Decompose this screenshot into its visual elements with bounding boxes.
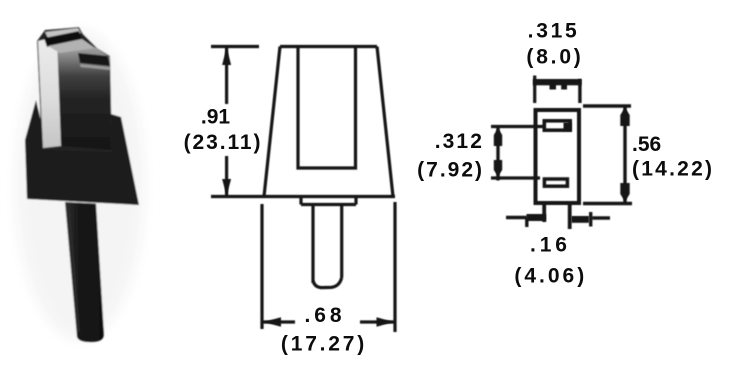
dim .315 arrow tooth left bbox=[550, 85, 557, 90]
seam under right slot bbox=[80, 64, 111, 70]
dim .315 bar with merged arrows bbox=[533, 79, 582, 85]
stem flange bbox=[301, 197, 356, 205]
dim .16 right tick bbox=[589, 212, 592, 227]
dim .315 end ticks bbox=[533, 76, 536, 104]
svg-text:(17.27): (17.27) bbox=[281, 333, 367, 356]
svg-text:(8.0): (8.0) bbox=[526, 46, 583, 69]
knob stem bbox=[65, 202, 104, 342]
arrow .312 up bbox=[494, 128, 502, 146]
top face back sliver bbox=[45, 28, 81, 38]
svg-text:(4.06): (4.06) bbox=[514, 265, 587, 288]
arrow .68 left bbox=[264, 317, 282, 326]
svg-text:.91: .91 bbox=[201, 106, 231, 129]
side view top slot bbox=[544, 121, 570, 130]
svg-text:(23.11): (23.11) bbox=[184, 131, 263, 154]
photo of knob bbox=[16, 27, 144, 342]
svg-text:(7.92): (7.92) bbox=[417, 159, 484, 182]
svg-text:.315: .315 bbox=[528, 20, 580, 43]
svg-text:.16: .16 bbox=[530, 234, 571, 257]
dim .16 right thin line bbox=[593, 216, 611, 220]
dim .56 extension lines bbox=[583, 106, 632, 204]
dim .16 left thin line bbox=[506, 216, 527, 220]
side view stem walls bbox=[544, 203, 570, 229]
stem bottom arc bbox=[313, 278, 342, 288]
arrow .68 right bbox=[377, 317, 395, 326]
side view bottom slot bbox=[544, 179, 567, 186]
svg-text:(14.22): (14.22) bbox=[632, 158, 714, 181]
svg-text:.56: .56 bbox=[632, 133, 661, 156]
side view body rectangle bbox=[536, 110, 580, 203]
top slot right dark fill bbox=[564, 123, 572, 132]
front view inner slot bbox=[298, 47, 356, 169]
top slot right bbox=[78, 53, 110, 66]
knob skirt bbox=[25, 100, 139, 205]
dim .315 arrow tooth right bbox=[561, 85, 567, 90]
stem highlight bbox=[69, 208, 79, 332]
svg-text:.68: .68 bbox=[305, 304, 346, 327]
paddle left white panel bbox=[38, 37, 61, 149]
arrow .312 down bbox=[494, 160, 502, 177]
knob front view outline bbox=[280, 45, 377, 48]
arrow .56 down bbox=[620, 183, 629, 202]
stem bbox=[313, 205, 342, 284]
top face wedge bbox=[48, 39, 95, 53]
top slot left bbox=[44, 31, 82, 47]
arrow .91 up bbox=[222, 48, 231, 66]
dimension .68 line segments bbox=[264, 320, 394, 323]
svg-text:.312: .312 bbox=[435, 130, 484, 153]
dim .312 line bbox=[496, 127, 499, 181]
arrow .91 down bbox=[222, 179, 231, 196]
paddle silhouette bbox=[37, 27, 112, 152]
arrow .16 right (bar) bbox=[572, 216, 590, 223]
dim .312 extension lines bbox=[491, 127, 543, 179]
arrow .16 left (bar) bbox=[527, 214, 547, 221]
photo halo bbox=[16, 30, 144, 340]
dimension .91 extension line top bbox=[211, 45, 259, 48]
dim .16 left tick bbox=[525, 218, 528, 227]
dim .56 line bbox=[623, 106, 626, 203]
dimension .91 line bbox=[225, 47, 228, 197]
arrow .56 up bbox=[620, 108, 629, 127]
paddle right face bbox=[57, 37, 111, 151]
dimension .68 extension lines bbox=[262, 202, 395, 332]
